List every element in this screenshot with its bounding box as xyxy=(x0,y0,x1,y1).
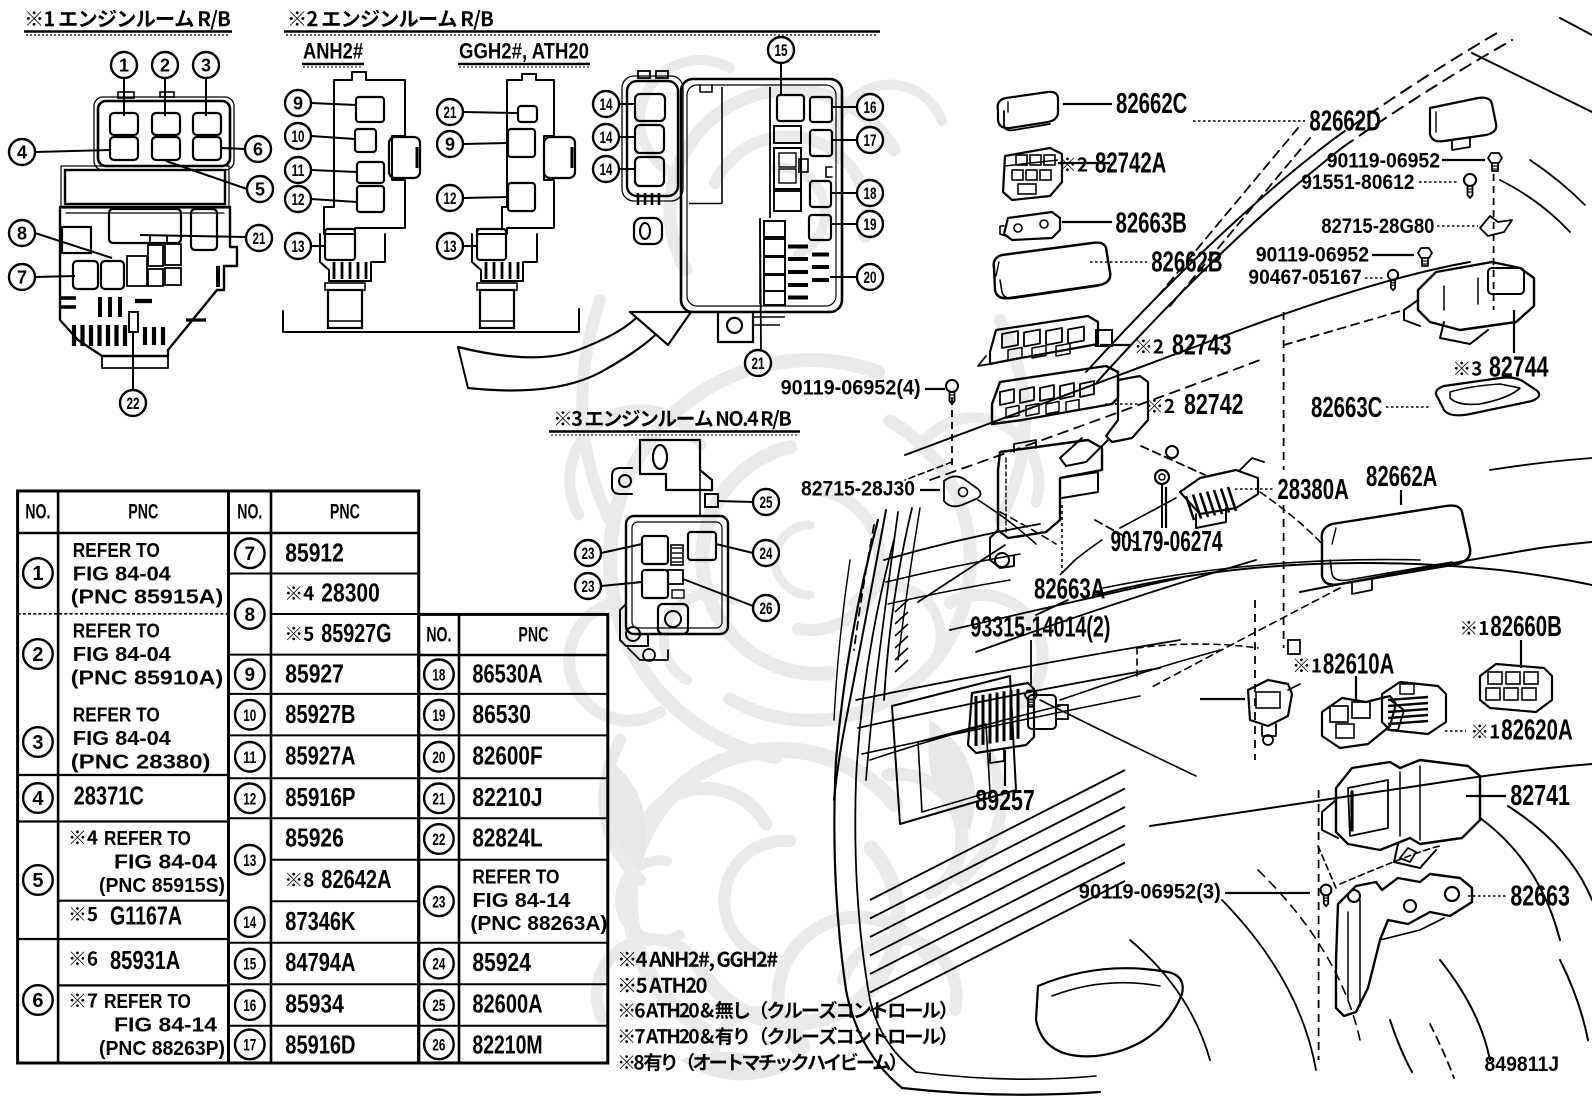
svg-text:17: 17 xyxy=(864,131,877,150)
svg-text:13: 13 xyxy=(243,851,256,870)
svg-text:82642A: 82642A xyxy=(321,864,391,894)
svg-text:FIG 84-04: FIG 84-04 xyxy=(73,643,172,666)
svg-text:4: 4 xyxy=(17,143,27,163)
svg-text:86530: 86530 xyxy=(472,699,531,729)
svg-text:93315-14014(2): 93315-14014(2) xyxy=(970,611,1110,643)
svg-text:24: 24 xyxy=(432,955,445,974)
svg-text:90119-06952: 90119-06952 xyxy=(1256,243,1369,267)
svg-text:90119-06952(3): 90119-06952(3) xyxy=(1079,880,1221,904)
svg-text:91551-80612: 91551-80612 xyxy=(1301,170,1414,194)
svg-text:87346K: 87346K xyxy=(285,906,355,936)
svg-text:FIG 84-04: FIG 84-04 xyxy=(73,727,172,750)
svg-text:85912: 85912 xyxy=(285,538,344,568)
svg-text:NO.: NO. xyxy=(237,501,262,524)
svg-text:11: 11 xyxy=(243,748,256,767)
svg-text:PNC: PNC xyxy=(518,624,548,647)
svg-text:(PNC 85915A): (PNC 85915A) xyxy=(71,586,223,609)
svg-text:21: 21 xyxy=(752,354,765,373)
svg-text:82660B: 82660B xyxy=(1490,610,1561,642)
svg-text:PNC: PNC xyxy=(128,501,158,524)
svg-text:13: 13 xyxy=(444,237,457,256)
svg-text:84794A: 84794A xyxy=(285,947,355,977)
svg-text:9: 9 xyxy=(293,94,303,114)
svg-text:G1167A: G1167A xyxy=(110,901,182,931)
svg-text:82663C: 82663C xyxy=(1311,391,1382,423)
svg-text:14: 14 xyxy=(600,128,613,147)
svg-text:4: 4 xyxy=(32,788,44,810)
svg-text:90467-05167: 90467-05167 xyxy=(1248,265,1361,289)
svg-text:849811J: 849811J xyxy=(1485,1052,1560,1076)
svg-text:7: 7 xyxy=(245,544,256,565)
svg-text:82742: 82742 xyxy=(1184,388,1244,420)
svg-text:22: 22 xyxy=(432,830,445,849)
svg-text:82662A: 82662A xyxy=(1366,460,1437,492)
svg-text:85927B: 85927B xyxy=(285,699,355,729)
svg-text:14: 14 xyxy=(600,160,613,179)
svg-text:21: 21 xyxy=(253,229,266,248)
svg-text:(PNC 88263A): (PNC 88263A) xyxy=(470,913,607,935)
svg-text:REFER TO: REFER TO xyxy=(104,827,191,850)
svg-text:11: 11 xyxy=(292,161,305,180)
svg-text:85931A: 85931A xyxy=(110,945,180,975)
svg-text:2: 2 xyxy=(160,56,170,76)
svg-text:6: 6 xyxy=(32,990,43,1012)
svg-text:1: 1 xyxy=(32,563,43,585)
svg-text:16: 16 xyxy=(864,98,877,117)
svg-text:1: 1 xyxy=(119,56,129,76)
svg-text:86530A: 86530A xyxy=(472,659,542,689)
svg-text:9: 9 xyxy=(245,665,256,686)
svg-text:15: 15 xyxy=(775,41,788,60)
svg-text:82663B: 82663B xyxy=(1116,206,1187,238)
svg-text:12: 12 xyxy=(444,189,457,208)
svg-text:3: 3 xyxy=(32,732,43,754)
svg-text:85916P: 85916P xyxy=(285,782,355,812)
svg-text:15: 15 xyxy=(243,955,256,974)
svg-text:(PNC 85910A): (PNC 85910A) xyxy=(71,666,223,689)
svg-text:REFER TO: REFER TO xyxy=(472,866,559,889)
svg-text:14: 14 xyxy=(600,95,613,114)
svg-text:2: 2 xyxy=(32,644,43,666)
svg-text:9: 9 xyxy=(445,135,455,155)
svg-text:85927: 85927 xyxy=(285,659,344,689)
svg-text:85927A: 85927A xyxy=(285,741,355,771)
svg-text:25: 25 xyxy=(760,493,773,512)
svg-text:(PNC 88263P): (PNC 88263P) xyxy=(99,1037,225,1060)
svg-text:22: 22 xyxy=(127,394,140,413)
svg-text:NO.: NO. xyxy=(25,501,50,524)
svg-text:26: 26 xyxy=(432,1036,445,1055)
svg-text:85934: 85934 xyxy=(285,989,344,1019)
svg-text:7: 7 xyxy=(17,268,27,288)
svg-text:REFER TO: REFER TO xyxy=(73,620,160,643)
svg-text:23: 23 xyxy=(582,544,595,563)
svg-text:19: 19 xyxy=(864,215,877,234)
svg-text:85927G: 85927G xyxy=(321,618,391,648)
svg-text:21: 21 xyxy=(432,789,445,808)
svg-text:14: 14 xyxy=(243,913,256,932)
svg-text:82663A: 82663A xyxy=(1034,572,1105,604)
svg-text:82610A: 82610A xyxy=(1323,647,1394,679)
svg-text:90119-06952(4): 90119-06952(4) xyxy=(781,375,921,399)
svg-text:28380A: 28380A xyxy=(1277,473,1348,505)
svg-text:82210M: 82210M xyxy=(472,1030,542,1060)
svg-text:8: 8 xyxy=(17,224,27,244)
svg-text:18: 18 xyxy=(864,184,877,203)
svg-text:16: 16 xyxy=(243,996,256,1015)
svg-text:REFER TO: REFER TO xyxy=(73,539,160,562)
svg-text:23: 23 xyxy=(582,577,595,596)
svg-text:82824L: 82824L xyxy=(472,823,542,853)
svg-text:GGH2#, ATH20: GGH2#, ATH20 xyxy=(459,39,589,64)
svg-text:(PNC 85915S): (PNC 85915S) xyxy=(99,874,225,897)
svg-text:85924: 85924 xyxy=(472,947,531,977)
svg-text:85926: 85926 xyxy=(285,823,344,853)
svg-text:NO.: NO. xyxy=(426,624,451,647)
svg-text:10: 10 xyxy=(292,127,305,146)
svg-text:PNC: PNC xyxy=(330,501,360,524)
svg-text:REFER TO: REFER TO xyxy=(73,704,160,727)
svg-text:82600A: 82600A xyxy=(472,989,542,1019)
svg-text:82663: 82663 xyxy=(1510,879,1570,911)
svg-text:28371C: 28371C xyxy=(74,781,144,811)
svg-text:12: 12 xyxy=(243,789,256,808)
svg-text:21: 21 xyxy=(444,103,457,122)
svg-text:82620A: 82620A xyxy=(1501,714,1572,746)
svg-text:82741: 82741 xyxy=(1510,779,1570,811)
svg-text:19: 19 xyxy=(432,706,445,725)
svg-text:FIG 84-04: FIG 84-04 xyxy=(73,562,172,585)
svg-text:20: 20 xyxy=(864,268,877,287)
svg-text:23: 23 xyxy=(432,892,445,911)
svg-text:26: 26 xyxy=(760,599,773,618)
svg-text:82715-28J30: 82715-28J30 xyxy=(801,476,915,500)
svg-text:90179-06274: 90179-06274 xyxy=(1111,525,1223,557)
svg-text:8: 8 xyxy=(245,605,256,626)
svg-text:6: 6 xyxy=(253,140,263,160)
svg-text:17: 17 xyxy=(243,1036,256,1055)
svg-text:5: 5 xyxy=(255,180,265,200)
svg-text:FIG 84-04: FIG 84-04 xyxy=(114,851,218,874)
svg-text:25: 25 xyxy=(432,996,445,1015)
svg-text:82600F: 82600F xyxy=(472,741,542,771)
svg-text:(PNC 28380): (PNC 28380) xyxy=(71,750,211,773)
svg-text:10: 10 xyxy=(243,706,256,725)
svg-text:ANH2#: ANH2# xyxy=(303,39,363,64)
svg-text:85916D: 85916D xyxy=(285,1030,355,1060)
svg-text:FIG 84-14: FIG 84-14 xyxy=(472,889,571,912)
svg-text:REFER TO: REFER TO xyxy=(104,990,191,1013)
svg-text:24: 24 xyxy=(760,544,773,563)
svg-text:FIG 84-14: FIG 84-14 xyxy=(114,1014,218,1037)
svg-text:18: 18 xyxy=(432,665,445,684)
svg-text:13: 13 xyxy=(292,237,305,256)
svg-text:82210J: 82210J xyxy=(472,782,542,812)
svg-text:82715-28G80: 82715-28G80 xyxy=(1321,214,1434,238)
svg-text:3: 3 xyxy=(201,56,211,76)
svg-text:20: 20 xyxy=(432,748,445,767)
svg-text:5: 5 xyxy=(32,870,43,892)
svg-text:28300: 28300 xyxy=(321,578,380,608)
svg-text:12: 12 xyxy=(292,190,305,209)
svg-text:82662C: 82662C xyxy=(1116,87,1187,119)
